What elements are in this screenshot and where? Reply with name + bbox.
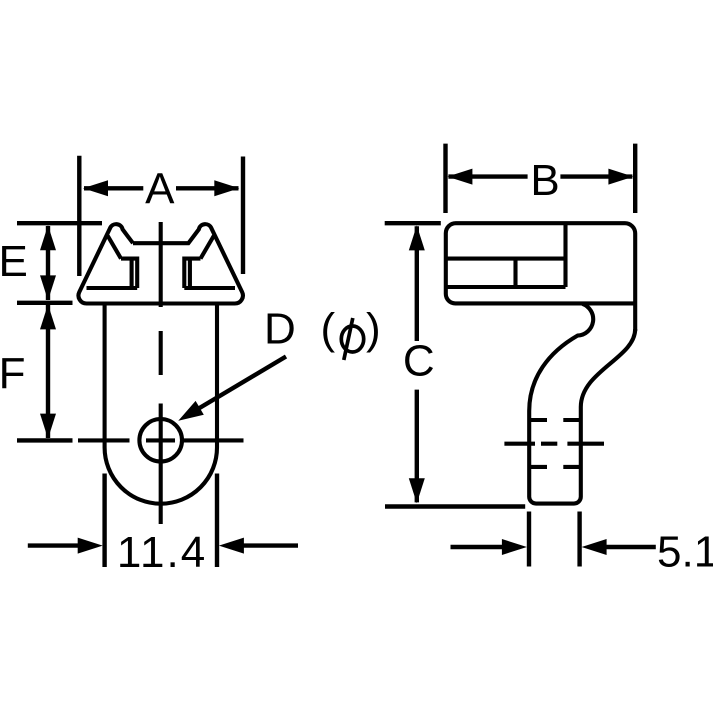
dim E top extension line xyxy=(17,221,102,225)
front view body left side xyxy=(103,304,107,448)
front view right inner base line xyxy=(184,286,235,290)
dim C arrow top xyxy=(415,226,419,341)
svg-text:E: E xyxy=(0,237,28,286)
dim A arrow right xyxy=(176,186,239,190)
dim 11.4 left extension line xyxy=(102,474,106,568)
side view head inner vertical xyxy=(563,225,567,288)
dim 5.1 left extension line xyxy=(527,512,531,567)
side view neck and stem outline xyxy=(529,304,635,504)
dim A right extension line xyxy=(241,157,245,275)
dim B right extension line xyxy=(633,144,637,213)
dim B arrow right xyxy=(560,174,632,178)
dim F arrows xyxy=(46,305,50,438)
dim C top extension line xyxy=(385,221,441,225)
horizontal centerline xyxy=(78,438,244,442)
dim A left extension line xyxy=(77,156,81,276)
dim B arrow left xyxy=(448,174,527,178)
dim 5.1 right extension line xyxy=(577,512,581,567)
svg-text:11.4: 11.4 xyxy=(117,528,207,577)
dim 5.1 left arrow xyxy=(451,545,506,549)
dim 11.4 left arrow xyxy=(28,543,80,547)
dim B left extension line xyxy=(443,144,447,213)
dim E bottom extension line xyxy=(17,301,73,305)
svg-text:B: B xyxy=(530,156,559,205)
dim 11.4 right arrow xyxy=(242,543,298,547)
side view head inner line 2 xyxy=(448,285,566,289)
side view head inner line 1 xyxy=(448,257,566,261)
svg-text:D: D xyxy=(264,305,296,354)
stem dashed barb line top xyxy=(529,418,581,422)
leader arrow D xyxy=(198,357,286,410)
side view head inner short vertical xyxy=(513,259,517,287)
dim E arrows xyxy=(46,226,50,300)
dim 11.4 right extension line xyxy=(215,474,219,568)
front view right inner slant xyxy=(201,236,214,259)
stem center dashed line with ticks xyxy=(504,442,604,446)
front view head outline xyxy=(78,224,242,303)
svg-text:5.1: 5.1 xyxy=(657,528,713,577)
vertical centerline xyxy=(159,222,163,524)
svg-text:(: ( xyxy=(321,305,336,354)
svg-text:): ) xyxy=(366,305,381,354)
hole circle xyxy=(139,419,182,462)
front view body right side xyxy=(215,304,219,448)
front view left slot xyxy=(121,259,137,288)
dim A arrow left xyxy=(84,186,143,190)
front view left inner base line xyxy=(87,286,138,290)
side view head outline xyxy=(446,223,635,331)
stem dashed barb line bottom xyxy=(529,465,581,469)
dim C arrow bottom xyxy=(415,390,419,503)
front view left inner slant xyxy=(108,236,121,259)
svg-text:C: C xyxy=(403,336,435,385)
dim C bottom extension line xyxy=(385,504,525,508)
svg-text:F: F xyxy=(0,349,25,398)
front view right slot xyxy=(184,259,200,288)
front view body bottom arc xyxy=(105,448,217,504)
dim F bottom extension line xyxy=(17,438,73,442)
dim 5.1 right arrow xyxy=(605,545,656,549)
svg-text:A: A xyxy=(145,164,175,213)
